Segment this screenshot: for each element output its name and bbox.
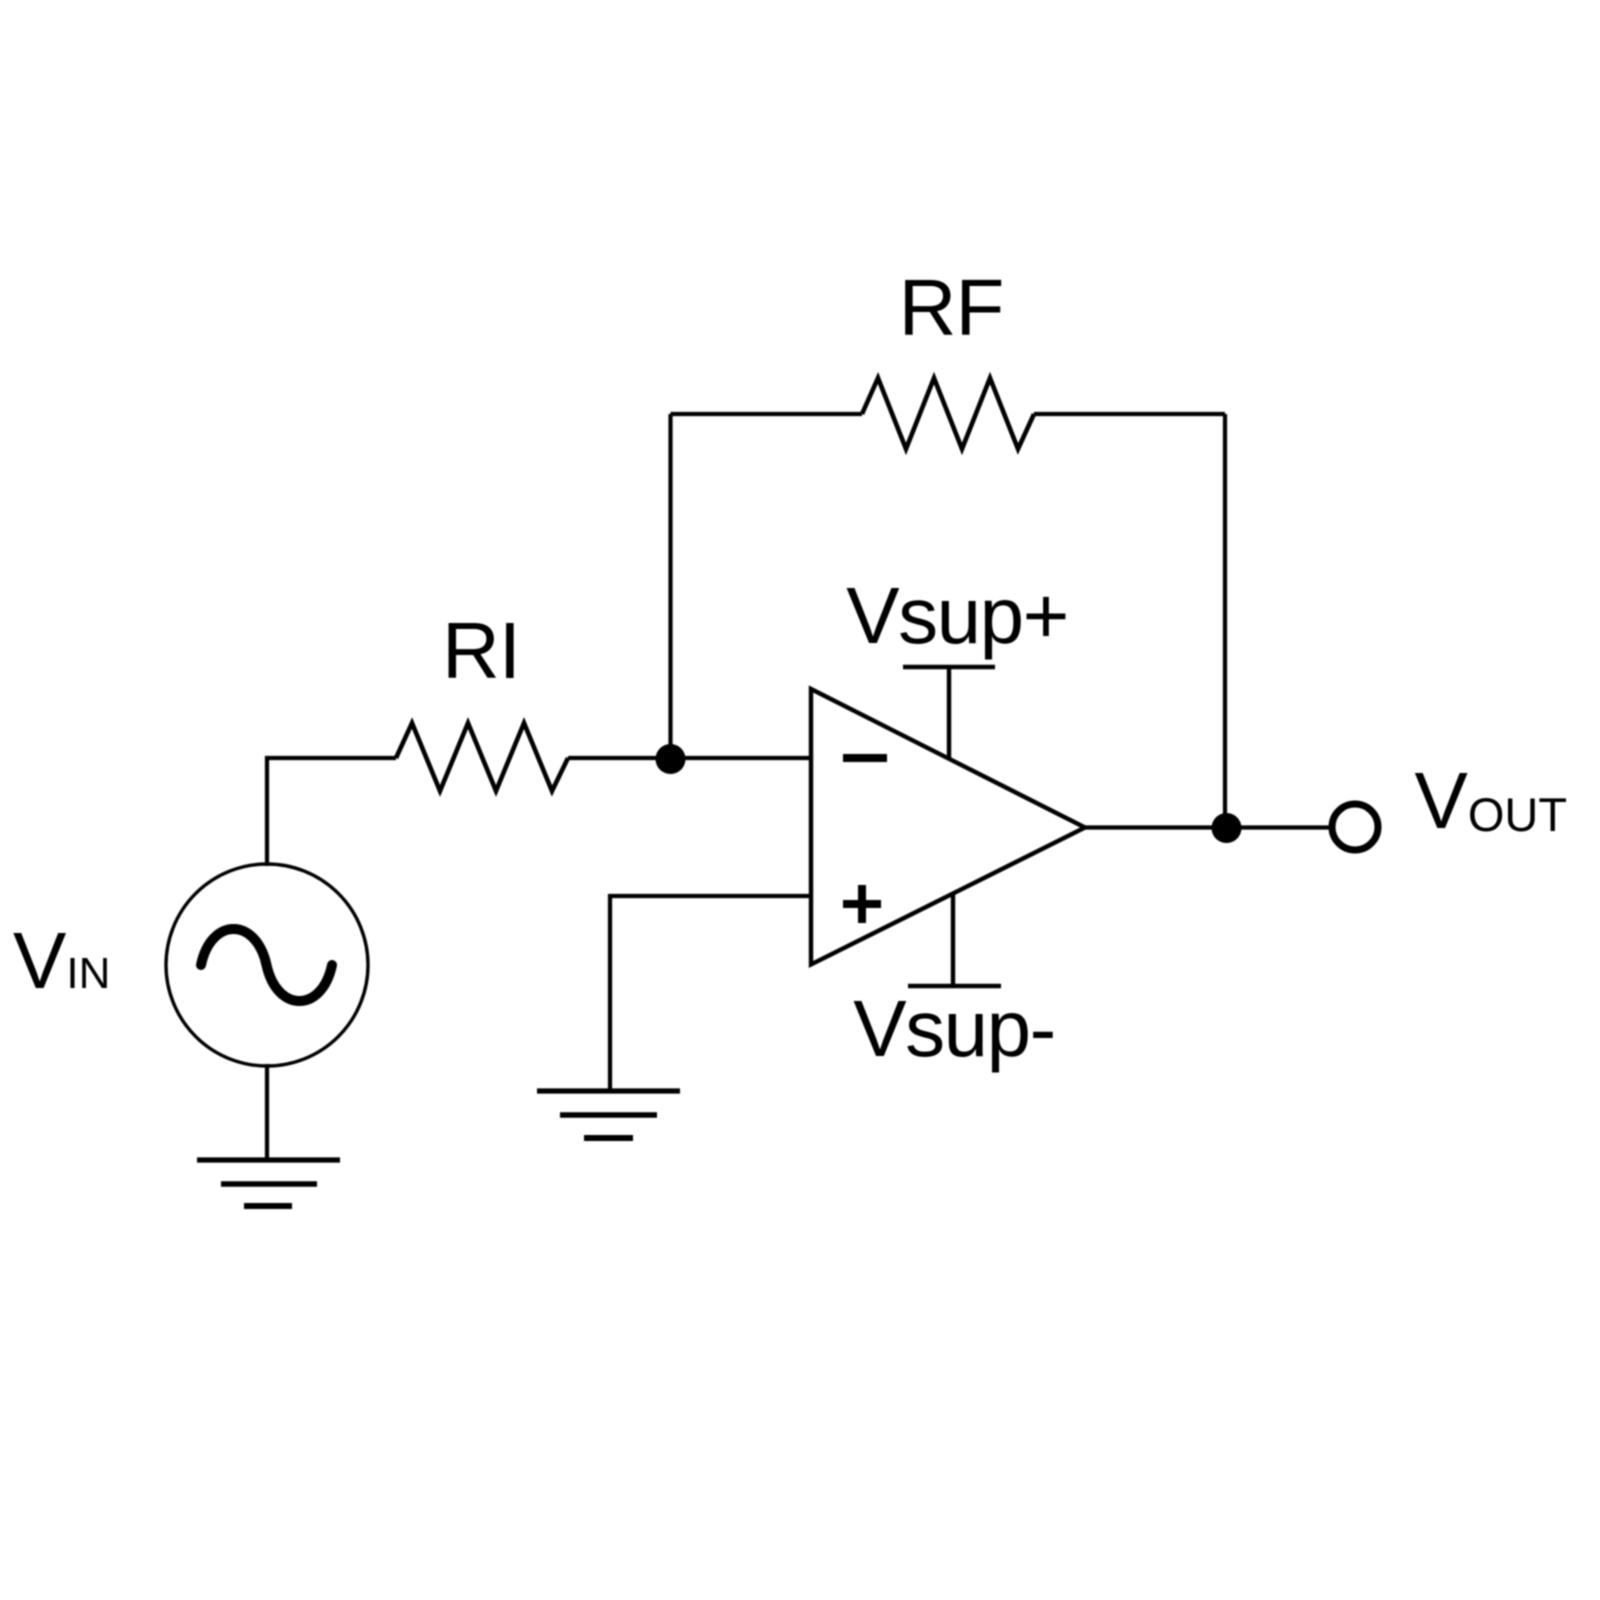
positive supply rail bar [903,667,995,759]
wire feedback right vertical [1223,414,1227,828]
wire VIN top to RI [267,758,396,866]
output terminal (open circle) [1332,804,1378,850]
ground (non-inverting input) [537,1091,680,1138]
voltage source VIN [166,864,368,1066]
wire feedback top left [671,412,863,416]
resistor RF [862,378,1034,449]
non-inverting input '+' symbol [843,885,881,923]
svg-text:Vsup+: Vsup+ [846,571,1068,660]
wire non-inverting input to ground [610,896,811,1091]
wire op-amp output [1085,825,1331,829]
wire VIN bottom to ground [265,1064,269,1160]
negative supply rail bar [908,893,1001,986]
ground (VIN) [197,1160,340,1206]
op-amp U1 [811,689,1085,965]
svg-text:RF: RF [899,263,1004,352]
wire RI to op-amp inverting input [568,756,811,760]
wire feedback top right [1034,412,1225,416]
svg-text:RI: RI [442,606,520,695]
wire feedback left vertical [668,414,672,758]
svg-text:Vsup-: Vsup- [853,984,1054,1073]
resistor RI [396,723,568,791]
node A (inverting input junction) [656,744,686,774]
node B (output junction) [1212,813,1242,843]
inverting input '-' symbol [843,754,887,762]
